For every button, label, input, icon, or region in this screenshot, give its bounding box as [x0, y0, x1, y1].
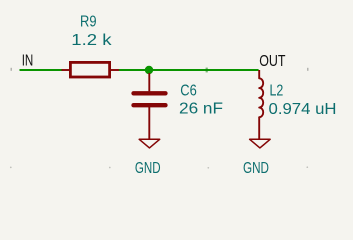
R9 value 1.2 k — [71, 32, 112, 49]
svg-text:1.2 k: 1.2 k — [71, 32, 112, 49]
unconnected end marker right — [307, 68, 308, 71]
grid dot — [10, 167, 12, 169]
C6 value 26 nF — [179, 101, 223, 118]
grid dot — [109, 167, 111, 169]
GND label right — [243, 160, 269, 177]
L2 value 0.974 uH — [269, 101, 337, 118]
svg-text:OUT: OUT — [259, 53, 285, 70]
L2 reference label — [270, 82, 284, 99]
GND label left — [135, 160, 161, 177]
C6 reference label — [180, 82, 197, 99]
inductor L2 — [259, 70, 263, 124]
svg-text:C6: C6 — [180, 82, 197, 99]
grid dot — [207, 167, 209, 169]
svg-text:0.974 uH: 0.974 uH — [269, 101, 337, 118]
svg-text:L2: L2 — [270, 82, 284, 99]
svg-text:R9: R9 — [80, 13, 97, 30]
wire — [119, 69, 259, 71]
svg-text:IN: IN — [22, 53, 34, 70]
net label OUT — [259, 53, 285, 70]
svg-text:26 nF: 26 nF — [179, 101, 223, 118]
svg-text:GND: GND — [135, 160, 161, 177]
ground right — [250, 124, 271, 148]
junction node — [145, 66, 153, 74]
resistor R9 — [62, 62, 120, 77]
capacitor C6 — [134, 73, 166, 124]
grid dot — [306, 166, 308, 168]
unconnected end marker left — [11, 68, 12, 71]
ground left — [139, 124, 160, 148]
R9 reference label — [80, 13, 97, 30]
net label IN — [22, 53, 34, 70]
wire — [20, 69, 63, 71]
wire segment joint — [206, 68, 208, 73]
svg-text:GND: GND — [243, 160, 269, 177]
